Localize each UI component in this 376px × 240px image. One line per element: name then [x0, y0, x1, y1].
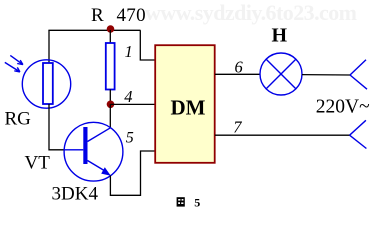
svg-text:470: 470: [117, 5, 146, 26]
wire collector vertical: [109, 104, 111, 128]
svg-text:6: 6: [235, 58, 244, 77]
svg-text:www.sydzdiy.6to23.com: www.sydzdiy.6to23.com: [145, 0, 357, 25]
wire top-right corner to pin 1: [140, 30, 155, 60]
wire lamp to fork: [302, 74, 350, 76]
transistor VT circle: [64, 122, 123, 181]
svg-text:R: R: [91, 5, 104, 26]
photoresistor RG body: [43, 63, 53, 104]
wire top horizontal: [48, 29, 140, 31]
wire resistor bottom lead: [109, 90, 111, 105]
photoresistor RG circle: [22, 60, 70, 108]
wire pin 7: [215, 134, 350, 136]
svg-text:7: 7: [233, 117, 242, 136]
junction node at collector: [107, 101, 115, 109]
svg-text:3DK4: 3DK4: [52, 184, 99, 205]
svg-text:1: 1: [125, 42, 133, 61]
svg-text:220V~: 220V~: [316, 97, 370, 118]
wire pin 4: [110, 103, 155, 105]
transistor emitter arrowhead: [101, 167, 111, 176]
wire RG top lead: [48, 30, 50, 63]
op-amp block DM: [155, 45, 215, 163]
AC terminal fork top: [350, 60, 367, 89]
transistor base bar: [83, 127, 87, 164]
transistor base lead: [64, 149, 83, 151]
svg-text:RG: RG: [5, 108, 32, 129]
svg-text:VT: VT: [25, 153, 51, 174]
wire resistor top lead: [109, 30, 111, 43]
svg-text:DM: DM: [171, 95, 206, 119]
svg-text:5: 5: [126, 130, 134, 147]
svg-text:H: H: [272, 25, 288, 47]
wire RG bottom lead to base: [49, 104, 64, 150]
lamp H cross: [266, 59, 296, 89]
AC terminal fork bottom: [350, 120, 367, 148]
junction node at R top: [107, 25, 115, 33]
caption figure glyph: [177, 197, 185, 206]
lamp H circle: [260, 53, 302, 95]
wire pin 6: [215, 73, 260, 75]
resistor R1 body: [106, 43, 115, 90]
light arrow 2: [5, 62, 20, 72]
wire emitter to pin 5: [110, 151, 155, 195]
light arrow 1: [10, 55, 23, 64]
svg-text:4: 4: [124, 87, 132, 106]
transistor emitter stroke: [88, 161, 106, 172]
transistor collector stroke: [88, 128, 111, 142]
svg-text:5: 5: [194, 196, 200, 210]
